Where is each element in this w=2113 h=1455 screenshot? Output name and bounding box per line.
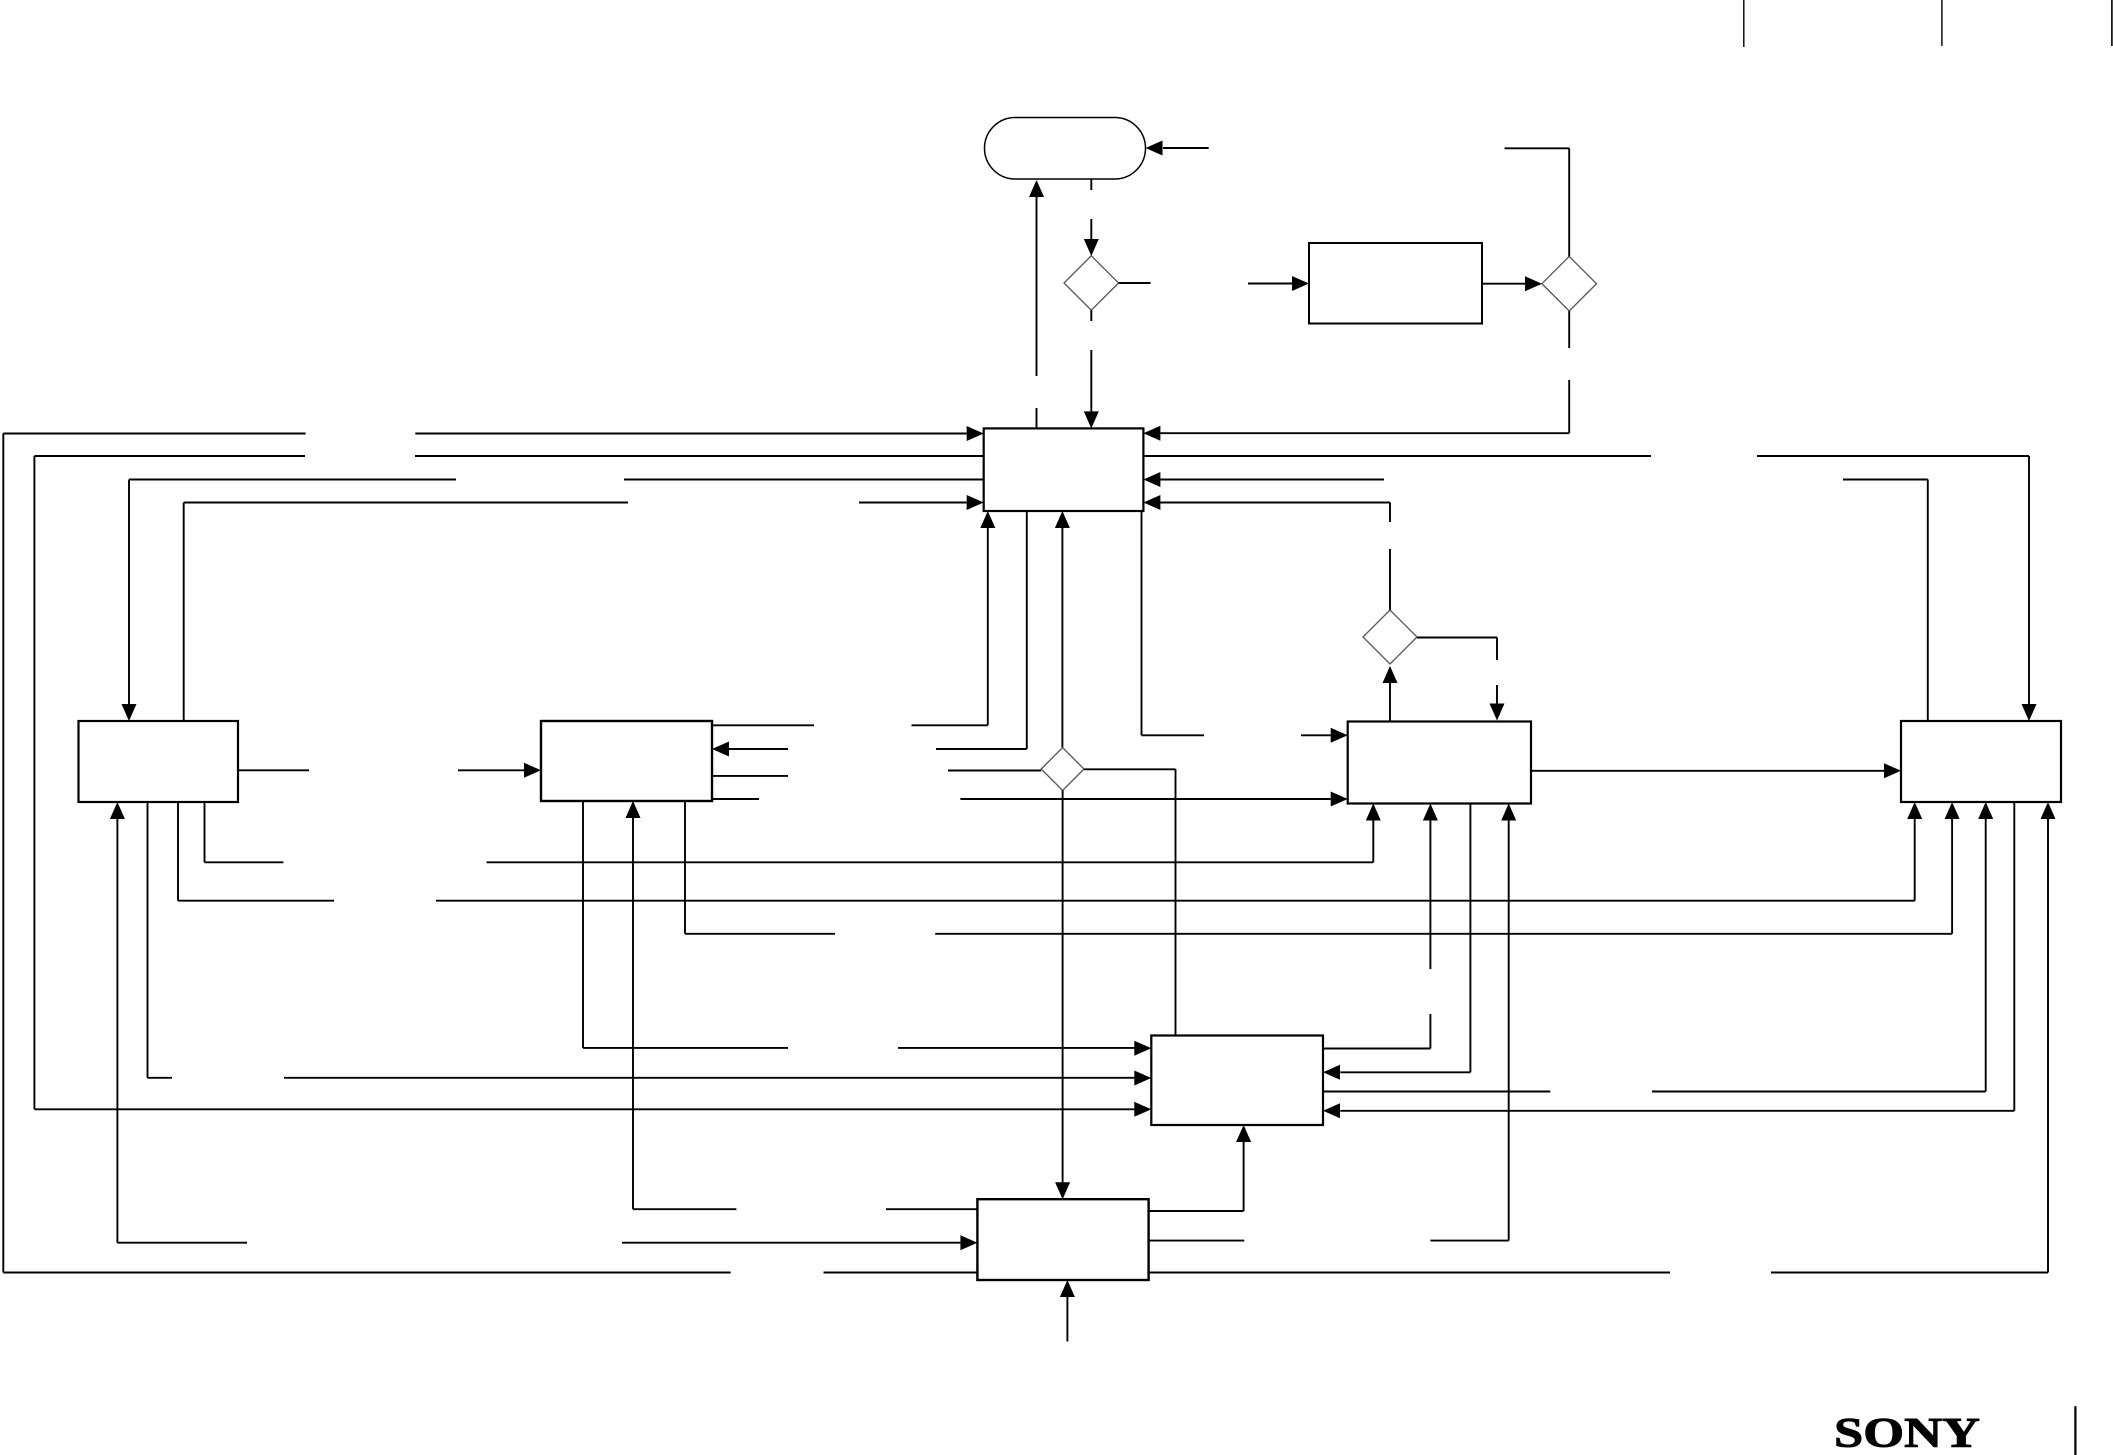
wire: diamond D3 right vertex right then down into timer box top: [1084, 769, 1176, 1035]
process box A (top right): [1309, 243, 1482, 324]
process box B4 mechanism (right): [1348, 722, 1531, 804]
wire: tuner box bottom x147 down then right arrow into timer box left y1078: [148, 802, 1152, 1086]
wire: display box right y1240 bus right then up arrow into mechanism box bottom x1509: [1149, 804, 1517, 1241]
wire: system control bottom right corner down then right arrow into mechanism box left y735: [1142, 511, 1348, 743]
wire: up arrow into tuner box bottom from display box loop (x117): [110, 802, 978, 1250]
wire: arrow into box A left side: [1248, 276, 1309, 291]
wire: outer feedback loop - left border down, bottom bus, up into RF box bottom: [3, 426, 2055, 1273]
wire: diamond D3 top up arrow into system control bottom (x1062): [1055, 511, 1070, 748]
wire: arrow up into stadium bottom from system control box top: [1029, 180, 1044, 428]
crop mark tick top right edge: [2111, 0, 2113, 46]
wire: arrow into stadium right side: [1146, 141, 1209, 156]
wire: diamond D1 bottom down into system control box top: [1084, 310, 1099, 428]
wire: tuner box bottom x178 down along y901 bus up arrow into regulator box bottom: [178, 802, 1922, 901]
wire: from diamond D2 top up and left toward stadium line: [1505, 148, 1570, 256]
process box B5 regulator (far right): [1901, 721, 2061, 802]
process box B7 display (bottom center): [977, 1199, 1148, 1280]
wire: system control right y456 line right then down into reg box top: [1143, 456, 2036, 721]
wire: diamond D2 bottom down then left into system control right edge: [1143, 311, 1569, 441]
wire: audio box bottom x685 down along y934 bus up arrow into regulator box bottom: [685, 801, 1960, 934]
wire: timer box output y1048 right then up arrow into mechanism box bottom x1430: [1323, 804, 1438, 1049]
crop mark tick top x1942: [1941, 0, 1943, 46]
terminal (stadium) start block: [985, 118, 1146, 180]
svg-text:SONY: SONY: [1834, 1411, 1980, 1455]
wire: audio box right edge up into system control bottom (x988): [712, 511, 995, 725]
wire: arrow into system control right y502 and line to diamond D4 top: [1143, 495, 1390, 610]
wire: arrow into system control right y480 and continuation down into reg box top: [1143, 472, 1927, 721]
decision diamond D4 (above mechanism box): [1363, 610, 1417, 664]
wire: tuner box top up and right into system control left edge y502: [184, 495, 984, 721]
wire: audio box bottom right corner bus right arrow into mechanism box left y799: [712, 792, 1348, 807]
wire: display box right edge up arrow into timer box bottom (x1243): [1149, 1125, 1252, 1211]
decision diamond D3 (center, below system control): [1041, 748, 1084, 791]
wire: system control bottom down then left arrow into audio box right edge (x1027): [712, 511, 1027, 757]
process box B1 tuner (left): [79, 721, 239, 802]
wire: diamond D1 right stub: [1119, 282, 1151, 284]
wire: system control left y480 line left and down arrow into tuner box top: [122, 480, 984, 722]
process box U1 system control (center): [984, 428, 1144, 511]
wire: display box left loop up arrow into audio box bottom (x633): [626, 801, 978, 1209]
wire: box A right to diamond D2: [1482, 276, 1542, 291]
wire: diamond D4 right vertex right then down arrow into mechanism box top: [1417, 638, 1505, 721]
wire: tuner box output right arrow into audio box left edge: [238, 763, 541, 778]
decision diamond D1 below stadium: [1064, 256, 1119, 310]
crop mark tick bottom right: [2074, 1406, 2076, 1455]
wire: mechanism box bottom x1470 down then left arrow into timer box right y1072: [1323, 804, 1470, 1080]
wire: diamond D3 left vertex line toward audio box right edge: [712, 771, 1041, 776]
wire: tuner box bottom x204 down along y862 bus up arrow into mechanism box bottom: [205, 802, 1381, 862]
wire: diamond D3 bottom down arrow into display box top: [1055, 790, 1070, 1199]
process box B6 timer (lower middle right): [1151, 1036, 1323, 1126]
crop mark tick top x1744: [1743, 0, 1745, 47]
wire: mechanism box top up arrow into diamond D4 bottom: [1383, 666, 1398, 722]
wire: up arrow into display box bottom: [1060, 1280, 1075, 1342]
wire: mechanism box output right arrow into regulator box left edge: [1531, 763, 1901, 778]
wire: bus from system control left y456 down left side into servo box left edge: [34, 456, 1151, 1117]
decision diamond D2 (right of box A): [1542, 256, 1597, 311]
wire: timer box output y1091 right then up arrow into regulator box bottom x1985: [1323, 802, 1993, 1092]
wire: audio box bottom x583 down along y1048 right arrow into timer box left: [583, 801, 1151, 1056]
wire: regulator box bottom x2014 down then left arrow into timer box right y1111: [1323, 802, 2014, 1118]
wire: stadium bottom down to diamond D1 (dashed label gaps): [1084, 179, 1099, 256]
process box B2 audio (mid left): [541, 721, 712, 801]
